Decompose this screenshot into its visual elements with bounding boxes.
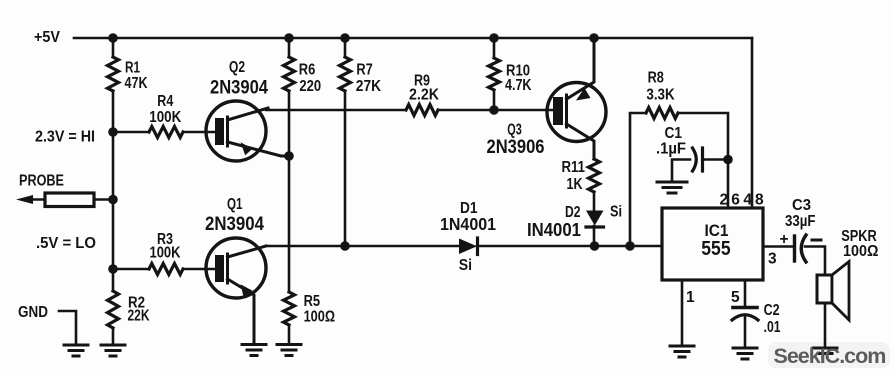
- wire R3 to Q1 base: [183, 268, 215, 271]
- transistor Q1: [206, 238, 266, 344]
- svg-text:2: 2: [720, 192, 729, 209]
- label GND: [18, 304, 48, 321]
- svg-text:2.2K: 2.2K: [409, 87, 440, 104]
- svg-text:8: 8: [755, 192, 764, 209]
- wire GND stub: [59, 311, 76, 344]
- pin 1 wire: [681, 280, 684, 345]
- wire R8 left leg: [630, 113, 646, 246]
- wire +5V top rail: [74, 37, 752, 40]
- svg-text:Si: Si: [610, 204, 622, 221]
- svg-text:33µF: 33µF: [785, 213, 816, 230]
- node rail/Q3 emitter: [589, 33, 599, 43]
- svg-text:R1: R1: [125, 60, 140, 77]
- resistor R10: [489, 58, 500, 90]
- ground C2: [733, 348, 757, 359]
- wire R7 to collector node: [344, 91, 347, 246]
- label 2.3V = HI: [35, 129, 95, 146]
- svg-text:1N4001: 1N4001: [440, 214, 496, 234]
- svg-text:R11: R11: [562, 159, 586, 176]
- node rail/R10: [489, 33, 499, 43]
- svg-text:.5V = LO: .5V = LO: [36, 235, 96, 252]
- svg-text:100Ω: 100Ω: [304, 309, 336, 326]
- svg-text:IN4001: IN4001: [527, 219, 581, 240]
- svg-text:C1: C1: [665, 125, 683, 142]
- svg-text:C3: C3: [792, 197, 811, 214]
- resistor R7: [340, 57, 351, 91]
- svg-text:555: 555: [701, 238, 730, 260]
- ground speaker: [813, 348, 837, 354]
- resistor R8: [646, 108, 678, 119]
- svg-text:100Ω: 100Ω: [843, 243, 879, 260]
- wire R10 bottom lead: [493, 90, 496, 110]
- wire Q2 collector line: [266, 109, 406, 112]
- wire R7 bus vertical: [344, 38, 347, 57]
- resistor R4: [149, 127, 183, 138]
- svg-text:.01: .01: [764, 319, 781, 336]
- svg-text:R8: R8: [648, 70, 665, 87]
- node R8 leg/main line: [625, 241, 635, 251]
- wire D1 to 555: [477, 245, 662, 248]
- +5V label: [34, 29, 61, 46]
- wire LO to R3: [113, 268, 149, 271]
- node probe junction: [108, 195, 118, 205]
- svg-text:R7: R7: [356, 62, 372, 79]
- wire R6 bus vertical: [288, 38, 291, 57]
- svg-text:C2: C2: [764, 302, 780, 319]
- svg-text:+5V: +5V: [34, 29, 61, 46]
- node Q2 emitter junction: [284, 151, 294, 161]
- resistor R2: [108, 291, 119, 328]
- svg-text:220: 220: [299, 78, 321, 95]
- node rail/R7: [340, 33, 350, 43]
- svg-text:22K: 22K: [128, 308, 151, 325]
- wire arrow to probe body: [30, 198, 45, 201]
- label .5V = LO: [36, 235, 96, 252]
- pin 3 wire: [763, 245, 792, 248]
- wire D2 to main line: [593, 226, 596, 246]
- svg-text:2N3904: 2N3904: [210, 77, 268, 99]
- wire R4 to Q2 base: [183, 131, 215, 134]
- wire R2 to ground: [112, 328, 115, 344]
- ground Q1 emitter: [242, 345, 266, 356]
- ground pin1: [670, 346, 694, 357]
- ground R5: [277, 345, 301, 356]
- wire left vertical bus: [112, 38, 115, 57]
- wire R1 to probe bus: [112, 91, 115, 291]
- svg-text:PROBE: PROBE: [19, 173, 64, 190]
- node rail/R1: [108, 33, 118, 43]
- resistor R9: [406, 105, 438, 116]
- svg-text:2N3904: 2N3904: [205, 213, 264, 235]
- node LO junction: [108, 264, 118, 274]
- svg-text:SeekIC.com: SeekIC.com: [774, 344, 886, 368]
- svg-text:Q1: Q1: [227, 196, 243, 213]
- svg-text:2.3V = HI: 2.3V = HI: [35, 129, 95, 146]
- node rail/R6: [284, 33, 294, 43]
- wire right rail drop to pins 4 8: [751, 38, 754, 208]
- diode D1: [459, 238, 478, 255]
- resistor R11: [589, 159, 600, 192]
- node R7/main line: [340, 241, 350, 251]
- IC1 555 timer box: [662, 208, 763, 280]
- wire R6 to R5: [288, 91, 291, 292]
- wire R9 to Q3 base: [438, 109, 553, 112]
- pin 5 wire: [744, 280, 747, 305]
- svg-text:Q2: Q2: [229, 59, 245, 76]
- svg-text:R6: R6: [299, 62, 316, 79]
- svg-text:R4: R4: [157, 93, 173, 110]
- svg-text:3.3K: 3.3K: [646, 87, 675, 104]
- svg-text:.1µF: .1µF: [656, 141, 686, 158]
- probe body: [45, 193, 94, 207]
- svg-text:47K: 47K: [125, 75, 149, 92]
- ground GND: [64, 345, 88, 356]
- resistor R5: [284, 292, 295, 325]
- svg-text:100K: 100K: [150, 245, 182, 262]
- svg-text:4.7K: 4.7K: [505, 77, 532, 94]
- wire R8 right leg down to pin 2/6: [678, 113, 728, 208]
- svg-text:27K: 27K: [356, 78, 382, 95]
- label PROBE: [19, 173, 64, 190]
- pin labels 2 6 4 8: [720, 192, 765, 209]
- wire main signal line: [266, 245, 458, 248]
- label C3 polarity -: [812, 239, 821, 242]
- wire R10 top: [493, 38, 496, 58]
- capacitor C1: [672, 148, 728, 181]
- svg-text:100K: 100K: [149, 109, 182, 126]
- svg-text:4: 4: [743, 192, 752, 209]
- svg-text:2N3906: 2N3906: [487, 136, 545, 158]
- watermark halo: [768, 342, 890, 368]
- svg-text:1: 1: [686, 289, 695, 306]
- svg-text:Si: Si: [459, 257, 472, 274]
- transistor Q3: [547, 38, 606, 159]
- ground R2: [101, 345, 125, 356]
- svg-text:6: 6: [731, 192, 740, 209]
- wire probe body to bus: [94, 198, 113, 201]
- diode D2: [586, 211, 604, 228]
- svg-text:+: +: [780, 231, 789, 248]
- node C1/pin6 wire: [723, 155, 733, 165]
- transistor Q2: [206, 101, 289, 161]
- node D2/main line: [590, 241, 600, 251]
- wire HI to R4: [113, 131, 149, 134]
- resistor R6: [284, 57, 295, 91]
- svg-text:1K: 1K: [567, 176, 584, 193]
- node R10 bottom: [489, 105, 499, 115]
- svg-text:R5: R5: [304, 293, 321, 310]
- resistor R3: [149, 264, 183, 275]
- wire R11 to D2: [593, 192, 596, 211]
- svg-text:GND: GND: [18, 304, 48, 321]
- svg-text:3: 3: [768, 251, 777, 268]
- svg-text:5: 5: [731, 289, 740, 306]
- ground C1: [657, 182, 687, 193]
- wire R5 to ground: [288, 325, 291, 344]
- speaker SPKR: [817, 262, 849, 348]
- node HI junction: [108, 127, 118, 137]
- capacitor C2: [732, 308, 758, 348]
- probe tip arrow: [16, 195, 33, 204]
- capacitor C3: [795, 235, 826, 275]
- label C3 polarity +: [780, 231, 789, 248]
- resistor R1: [108, 57, 119, 91]
